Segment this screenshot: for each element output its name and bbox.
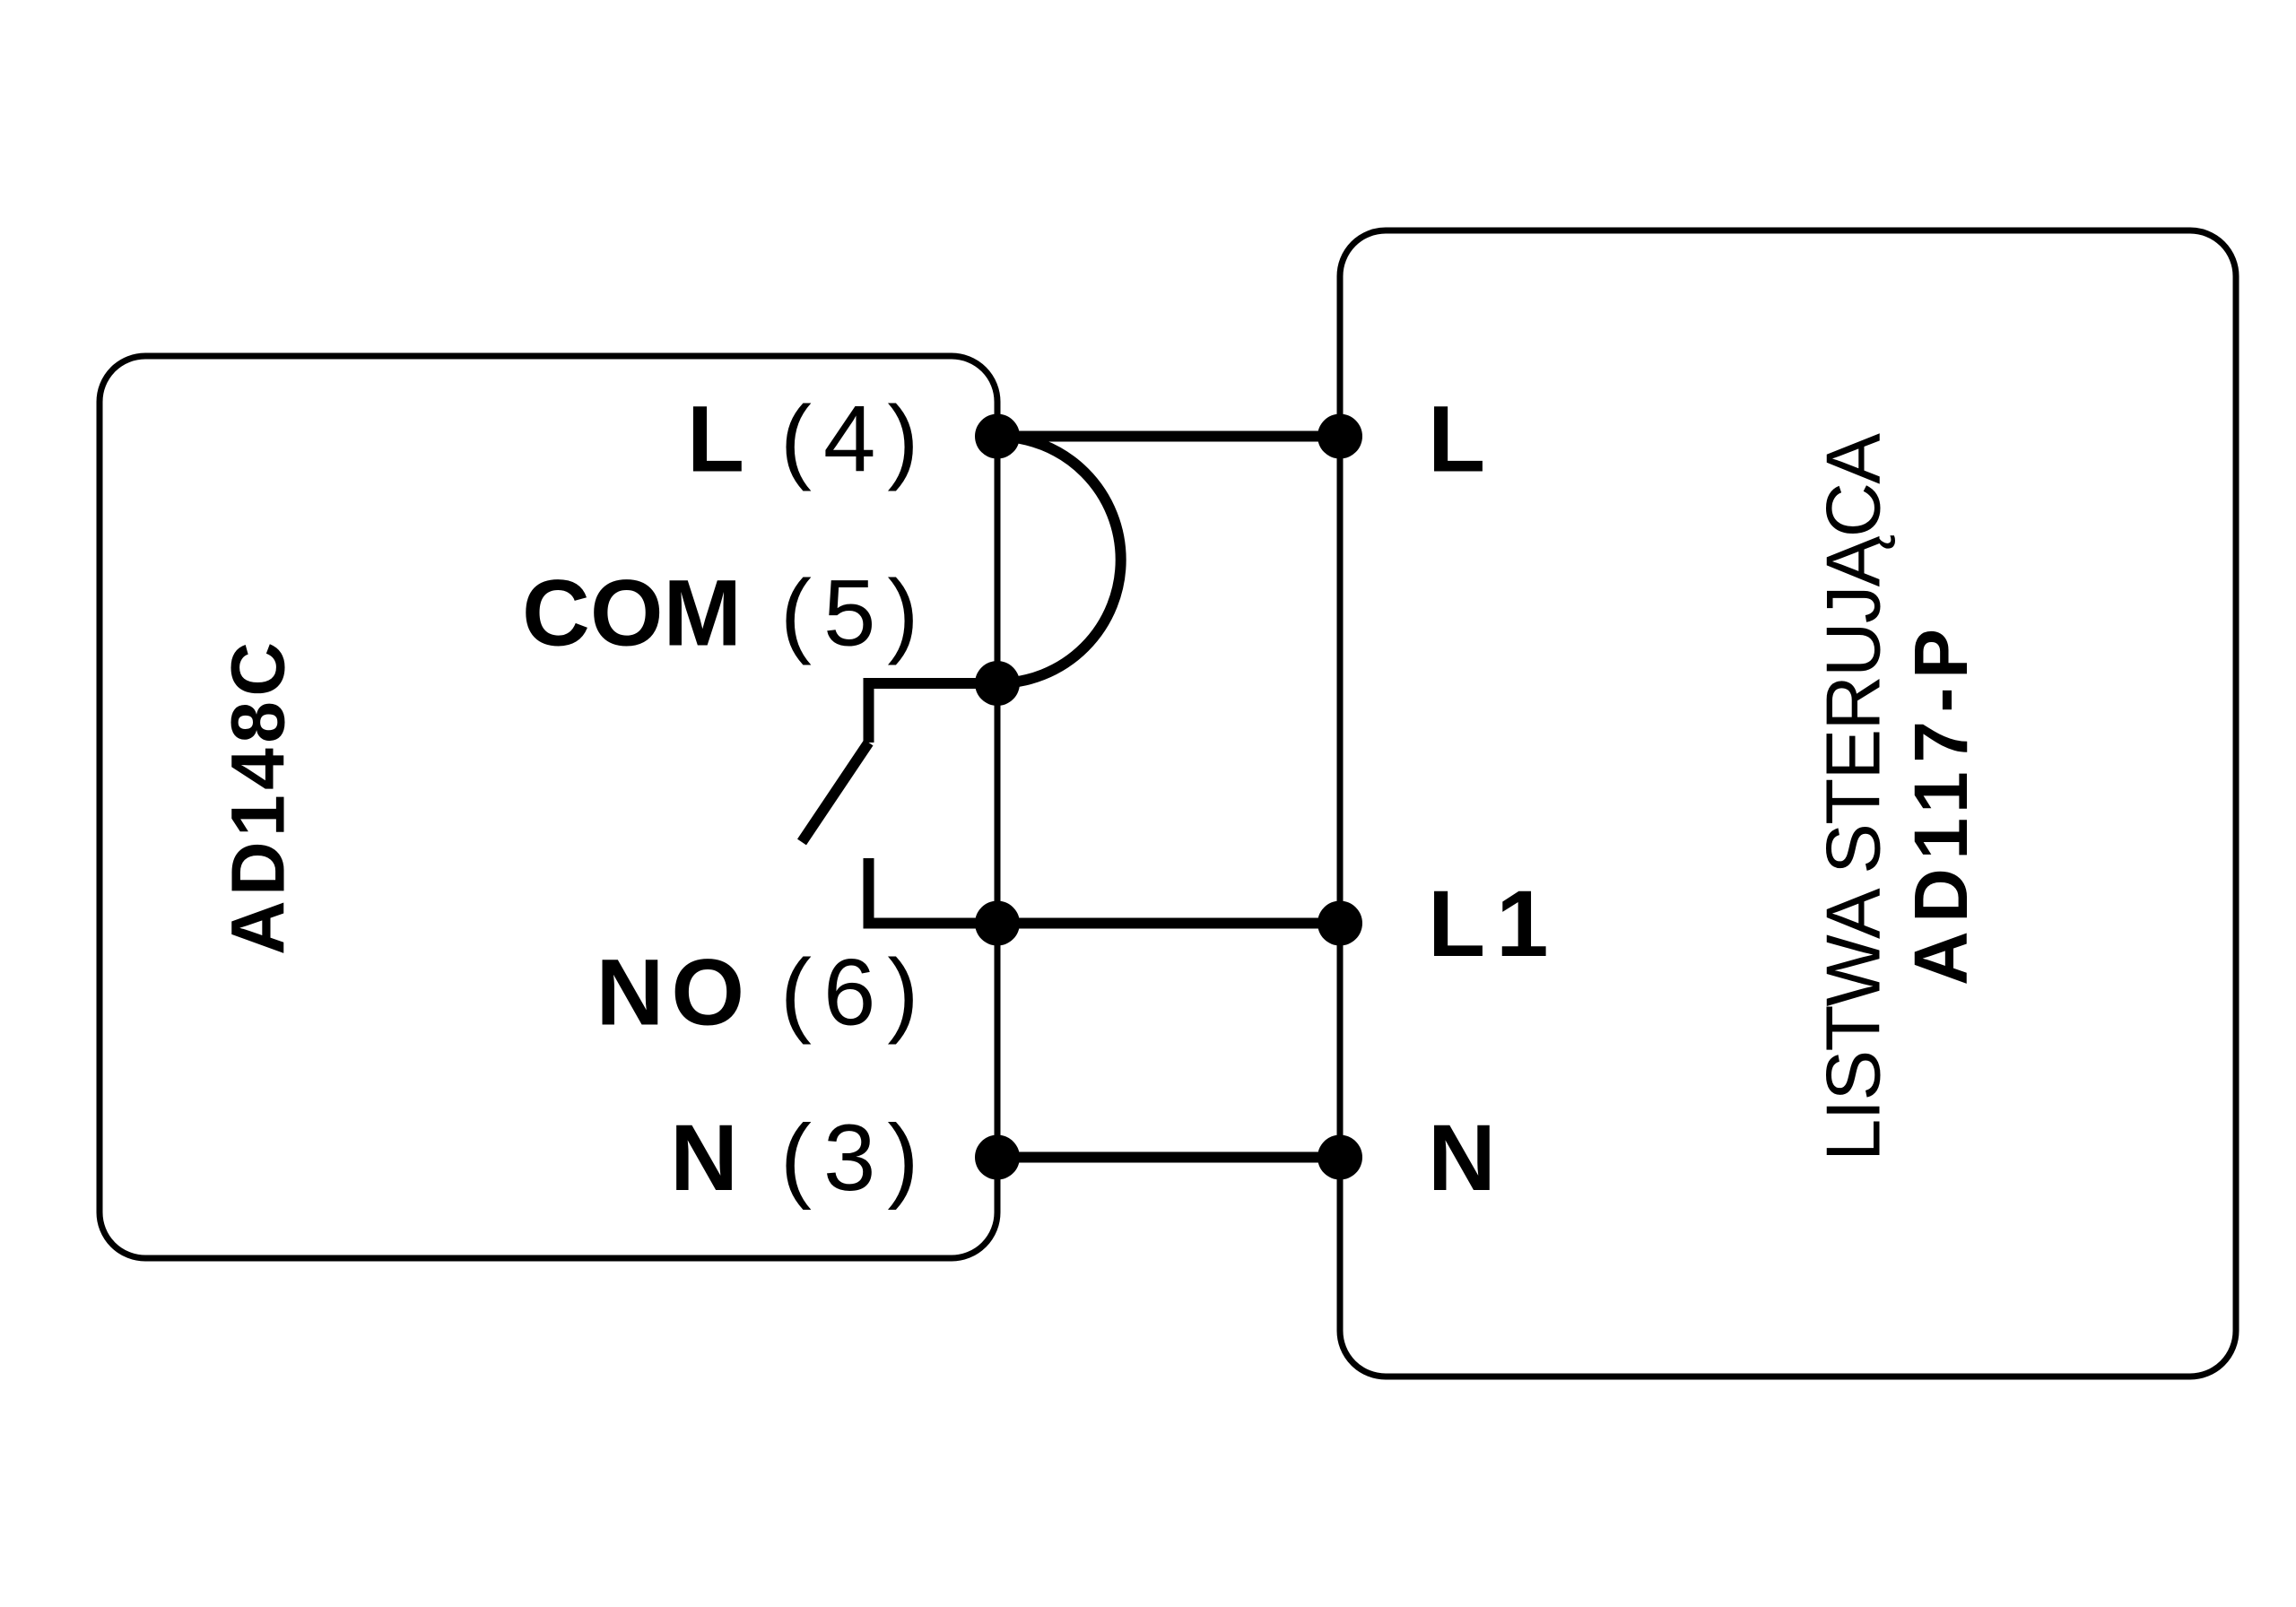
node L(4) (975, 414, 1020, 459)
node N (1318, 1135, 1362, 1180)
svg-text:L: L (687, 387, 744, 492)
node NO(6) (975, 901, 1020, 946)
svg-text:N: N (1428, 1106, 1496, 1211)
node COM(5) (975, 661, 1020, 706)
svg-text:COM: COM (522, 561, 742, 666)
node L1 (1318, 901, 1362, 946)
wire from COM(5) to switch (864, 678, 998, 689)
svg-text:(3): (3) (780, 1106, 930, 1211)
svg-text:(5): (5) (780, 561, 930, 666)
svg-text:(6): (6) (780, 940, 930, 1045)
svg-text:N: N (670, 1106, 738, 1211)
svg-text:LISTWA STERUJĄCA: LISTWA STERUJĄCA (1811, 433, 1896, 1161)
svg-text:L1: L1 (1428, 872, 1560, 977)
jumper arc L(4) to COM(5) (997, 437, 1121, 684)
switch upper lead (864, 678, 874, 743)
node N(3) (975, 1135, 1020, 1180)
switch lower lead (864, 858, 874, 929)
switch arm (802, 743, 869, 842)
wire N(3) to N (997, 1152, 1340, 1163)
svg-text:NO: NO (596, 940, 752, 1045)
svg-text:L: L (1428, 387, 1485, 492)
svg-text:AD148C: AD148C (216, 642, 300, 955)
device box AD148C (100, 356, 997, 1258)
device box AD117-P (LISTWA STERUJACA) (1340, 230, 2236, 1377)
svg-text:AD117-P: AD117-P (1899, 629, 1983, 986)
node L (1318, 414, 1362, 459)
svg-text:(4): (4) (780, 387, 930, 492)
wire L(4) to L (997, 431, 1340, 442)
wire NO(6) to L1 (864, 918, 1341, 929)
